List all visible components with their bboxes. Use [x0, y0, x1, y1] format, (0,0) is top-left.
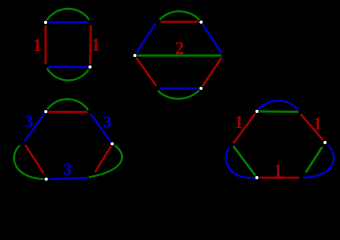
G1 red edge (left), multiplicity 1 — [44, 24, 46, 64]
G1 vertex dot (bottom-right) — [87, 64, 93, 70]
G2 vertex dot (top-right) — [198, 19, 204, 25]
G3 blue edge (bottom), multiplicity 3 — [46, 178, 88, 179]
svg-text:1: 1 — [33, 35, 42, 55]
G4 blue arc edge (top) — [257, 101, 299, 112]
G1 red edge (right), multiplicity 1 — [89, 25, 92, 66]
G2 blue edge (upper-right diagonal) — [201, 22, 222, 53]
G3 blue edge (upper-right diagonal), multiplicity 3 — [91, 114, 112, 144]
G2 green arc edge (bottom) — [158, 88, 201, 98]
svg-text:2: 2 — [175, 38, 184, 58]
G4 green edge (lower-right diagonal) — [306, 147, 322, 173]
G1 vertex dot (top-left) — [43, 20, 49, 26]
svg-text:3: 3 — [63, 160, 72, 179]
G1 blue edge (top) — [47, 21, 88, 23]
G4 green edge (top) — [257, 110, 298, 113]
G3 vertex dot (bottom-left) — [43, 176, 49, 182]
G3 vertex dot (middle-right) — [109, 141, 115, 147]
G4 red edge (upper-left diagonal), multiplicity 1 — [233, 111, 257, 143]
G3 green arc edge (lower-right, outer) — [89, 144, 122, 178]
svg-text:1: 1 — [274, 161, 283, 181]
G2 green edge (middle), multiplicity 2 — [135, 54, 221, 56]
G4 vertex dot (middle-right) — [322, 140, 328, 146]
G1 blue edge (bottom) — [48, 66, 89, 68]
svg-text:1: 1 — [313, 114, 322, 134]
G4 green edge (lower-left diagonal) — [233, 146, 255, 176]
G4 vertex dot (top-left) — [254, 109, 260, 115]
G3 blue edge (upper-left diagonal), multiplicity 3 — [24, 112, 45, 142]
svg-text:1: 1 — [91, 35, 100, 55]
G2 green arc edge (top) — [160, 11, 201, 22]
G2 red edge (lower-left diagonal) — [135, 56, 156, 86]
svg-text:3: 3 — [25, 112, 34, 131]
G2 red edge (lower-right diagonal) — [202, 58, 221, 87]
G3 green arc edge (lower-left, outer) — [14, 146, 46, 180]
G2 blue edge (upper-left diagonal) — [135, 24, 156, 56]
svg-text:3: 3 — [103, 113, 112, 132]
G3 red edge (lower-left diagonal) — [25, 145, 43, 173]
G4 vertex dot (bottom-left) — [254, 175, 260, 181]
G1 green arc edge (bottom) — [47, 67, 90, 80]
G1 green arc edge (top) — [46, 9, 89, 22]
G4 red edge (upper-right diagonal), multiplicity 1 — [301, 114, 323, 140]
G3 green arc edge (top) — [46, 99, 88, 112]
G3 red edge (lower-right diagonal) — [95, 145, 112, 172]
G3 red edge (top) — [48, 111, 88, 113]
svg-text:1: 1 — [235, 112, 244, 132]
G2 blue edge (bottom) — [160, 87, 201, 89]
G4 red edge (bottom), multiplicity 1 — [260, 177, 299, 179]
G3 vertex dot (top-left) — [43, 109, 49, 115]
G4 blue arc edge (lower-right, outer) — [303, 145, 334, 178]
G2 vertex dot (middle-left) — [132, 53, 138, 59]
G2 vertex dot (bottom-right) — [198, 86, 204, 92]
G2 red edge (top) — [161, 21, 200, 23]
G4 blue arc edge (lower-left, outer) — [226, 147, 257, 177]
